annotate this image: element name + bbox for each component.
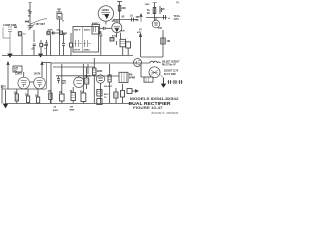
resistor R2 (40, 40, 43, 47)
svg-text:1ST IF: 1ST IF (74, 49, 81, 51)
svg-text:50L6GT: 50L6GT (104, 86, 113, 88)
capacitor C18 (57, 79, 60, 81)
wire V6 stem (78, 76, 80, 77)
svg-text:KC: KC (136, 20, 140, 22)
svg-text:10: 10 (104, 97, 107, 99)
T2 divider (81, 27, 83, 53)
capacitor C3 (33, 44, 36, 46)
wire (33, 30, 35, 42)
fuse box (127, 89, 132, 94)
tuning capacitor arrow (29, 24, 35, 31)
svg-text:12V: 12V (14, 68, 19, 70)
svg-text:.05: .05 (121, 16, 125, 19)
svg-text:.05: .05 (53, 107, 57, 109)
svg-text:10M: 10M (43, 44, 48, 47)
grid row wire (56, 75, 94, 77)
svg-text:25: 25 (28, 16, 31, 18)
arrow on heater wire (41, 62, 43, 65)
svg-text:455KC: 455KC (84, 29, 91, 32)
resistor R18 (97, 90, 102, 97)
svg-text:2.2: 2.2 (23, 34, 27, 36)
tube V6 envelope (74, 77, 84, 87)
svg-text:120V: 120V (145, 4, 151, 6)
svg-text:1ST DET: 1ST DET (36, 24, 46, 26)
second rail (53, 66, 94, 68)
svg-text:220K: 220K (97, 71, 103, 73)
wire (40, 47, 42, 55)
heater wire (41, 63, 43, 78)
right box bottom wire (141, 56, 163, 58)
oscillator coil T1 (57, 14, 62, 20)
wire (94, 75, 119, 104)
wire (37, 89, 39, 104)
V6 marks (76, 81, 82, 84)
filter choke L2 (150, 61, 161, 63)
antenna top cap (28, 2, 32, 4)
heater chain wire (2, 88, 46, 90)
B+ rail horizontal (51, 62, 150, 64)
svg-text:SPKR: SPKR (129, 77, 136, 79)
svg-text:12AT6: 12AT6 (15, 73, 22, 76)
svg-text:47K: 47K (121, 30, 125, 33)
resistor R5 (153, 8, 156, 14)
svg-text:AVC: AVC (104, 93, 109, 96)
capacitor C17 box (126, 42, 131, 48)
label boxed note (13, 66, 22, 72)
capacitor C9 (37, 97, 40, 103)
wire V3 top (23, 72, 25, 77)
wire (117, 33, 121, 45)
resistor R15 (120, 39, 126, 47)
AVC top cap (153, 2, 158, 4)
antenna lead-in wire (29, 3, 31, 30)
wire to oscillator (30, 19, 47, 25)
svg-text:400V: 400V (53, 109, 59, 112)
output transformer T3 (119, 72, 128, 82)
wire (46, 40, 48, 56)
AVC stub arrow (140, 14, 142, 17)
wire (100, 31, 102, 56)
switch box (144, 77, 153, 82)
wire (119, 20, 121, 23)
rectifier V5 envelope (152, 20, 160, 28)
svg-text:PM: PM (129, 75, 133, 77)
capacitor C2 (14, 26, 17, 28)
B+ top cap (117, 1, 122, 3)
capacitor C10 (60, 94, 65, 101)
svg-text:150: 150 (70, 107, 74, 109)
wire (58, 76, 60, 84)
T2 winding left (75, 40, 82, 47)
tuning capacitor C1B (28, 25, 33, 27)
wire (63, 33, 65, 56)
chassis bus (bottom section) (6, 103, 132, 105)
resistor R8 (49, 93, 52, 100)
wire (87, 64, 89, 74)
wire plate (113, 19, 138, 21)
tube V8 envelope (134, 59, 142, 67)
svg-text:b: b (62, 19, 64, 23)
ground (bottom) (4, 104, 8, 108)
svg-text:12BA6: 12BA6 (112, 20, 120, 23)
svg-text:2ND IF: 2ND IF (74, 30, 81, 32)
right box left wire (140, 34, 142, 57)
ground (loop return) (8, 54, 12, 57)
resistor R1 (18, 32, 21, 36)
left edge wire (1, 85, 3, 104)
svg-text:455KC: 455KC (92, 22, 99, 25)
capacitor C4 (53, 32, 54, 35)
capacitor C12 (99, 34, 102, 36)
output stage feed wire (93, 58, 95, 68)
svg-text:.01: .01 (130, 15, 134, 18)
svg-text:+⊦: +⊦ (168, 16, 171, 20)
tube V3 envelope (18, 77, 30, 89)
V7 marks (98, 78, 103, 81)
svg-text:F+: F+ (177, 2, 181, 5)
T2 winding right (84, 40, 91, 47)
tube V1 envelope (98, 6, 113, 21)
B+ rail vertical (50, 63, 52, 104)
right box right wire (162, 30, 164, 57)
wire (109, 64, 111, 104)
capacitor C1 (29, 12, 32, 14)
svg-text:50L6GT 35Z5GT: 50L6GT 35Z5GT (162, 62, 180, 64)
V9 internal marks (151, 70, 158, 75)
capacitor C14 (62, 44, 65, 46)
resistor R10 (93, 68, 96, 75)
wire V1 bottom (105, 21, 107, 24)
capacitor C11 (81, 93, 86, 102)
left section edge wire (46, 63, 48, 89)
wire (16, 89, 18, 104)
V8 marks (135, 61, 140, 65)
resistor R4 (118, 6, 121, 12)
wire (72, 87, 74, 104)
V3 heater marks (21, 81, 27, 90)
svg-text:117V: 117V (174, 19, 180, 21)
chassis bus (top section) (2, 55, 133, 57)
bottom ground lead (5, 90, 7, 104)
svg-text:47: 47 (64, 33, 67, 36)
AVC stub wire (140, 15, 142, 23)
capacitor C19 (97, 99, 102, 105)
svg-text:MMF: MMF (70, 110, 76, 112)
svg-text:C1A: C1A (25, 21, 30, 24)
wire (123, 47, 129, 56)
wire (119, 2, 121, 21)
wire (70, 33, 72, 56)
ground (speaker) (162, 78, 166, 87)
IF can small box (92, 25, 100, 35)
resistor R14 (70, 43, 73, 47)
capacitor C7 (164, 15, 166, 20)
svg-text:455: 455 (136, 16, 141, 19)
oscillator coil cap (56, 9, 62, 12)
wire (115, 88, 117, 104)
wire (27, 89, 29, 104)
IF can windings (94, 27, 96, 33)
resistor R16 (84, 78, 89, 84)
wire grid row (46, 32, 67, 34)
resistor R3 (47, 31, 50, 34)
B+ feed wire (7, 63, 9, 90)
svg-text:90: 90 (147, 12, 150, 15)
wire (86, 67, 88, 89)
wire (42, 62, 51, 64)
wire (59, 19, 61, 55)
resistor R6 (161, 38, 165, 44)
tube V2 envelope (112, 23, 122, 33)
svg-text:JOHN F. RIDER: JOHN F. RIDER (151, 111, 179, 115)
svg-text:TO B+: TO B+ (174, 16, 181, 18)
svg-text:455KC: 455KC (84, 48, 91, 51)
svg-text:40: 40 (162, 8, 165, 11)
wire (49, 100, 51, 104)
AVC line wire (154, 3, 156, 22)
resistor R19 (114, 92, 118, 98)
wire (122, 84, 124, 104)
svg-text:117V: 117V (1, 87, 7, 89)
wire to ground (160, 75, 164, 79)
svg-text:47: 47 (139, 29, 142, 32)
capacitor C8 (27, 96, 30, 103)
V2 grid marks (114, 26, 121, 28)
V5 plate marks (154, 23, 158, 25)
svg-text:DET: DET (62, 83, 67, 85)
wire (61, 64, 63, 104)
capacitor C5 (132, 18, 134, 22)
resistor R13 (60, 31, 63, 34)
AC line ticks (169, 80, 182, 84)
resistor R7 (15, 94, 18, 101)
svg-text:1M: 1M (167, 40, 170, 43)
capacitor C16 (104, 27, 106, 30)
wire (33, 46, 35, 55)
svg-text:22K: 22K (122, 7, 127, 10)
svg-text:12BE6: 12BE6 (102, 9, 110, 12)
tube V7 envelope (96, 75, 104, 83)
arrow B+ (140, 34, 142, 37)
wire (21, 36, 23, 55)
resistor R12 (108, 75, 111, 82)
IF transformer box T2 (73, 27, 99, 53)
svg-text:470K: 470K (48, 28, 54, 31)
wire (82, 64, 84, 104)
wire V5 stem (155, 18, 157, 21)
capacitor C20 (121, 91, 125, 98)
AC line wire (167, 81, 183, 83)
svg-text:DUAL RECTIFIER: DUAL RECTIFIER (129, 101, 172, 106)
arrow on B+ feed (7, 62, 9, 65)
wire (50, 35, 52, 56)
svg-text:AC: AC (14, 70, 18, 73)
V4 heater marks (37, 81, 43, 90)
rectifier V9 envelope (149, 67, 160, 78)
V1 grid marks (101, 13, 110, 15)
svg-text:1K: 1K (70, 91, 73, 93)
svg-text:60 CY 30W: 60 CY 30W (164, 74, 177, 76)
wire (146, 17, 167, 19)
wire (141, 63, 144, 77)
wire grid V2 (100, 27, 112, 29)
svg-text:50L6: 50L6 (85, 76, 91, 78)
resistor R9 (71, 93, 75, 101)
tube V4 envelope (34, 77, 46, 89)
svg-text:12AT6: 12AT6 (34, 73, 41, 76)
ground junction blob (39, 54, 43, 57)
V2 cathode blob (116, 29, 119, 32)
svg-text:M: M (58, 15, 61, 19)
loop antenna L1 (8, 27, 12, 54)
loop left side (3, 28, 10, 39)
resistor R11 (110, 38, 114, 42)
wire between tubes (30, 81, 34, 83)
svg-text:FIGURE 10-47: FIGURE 10-47 (133, 106, 163, 110)
V1 cathode blob (105, 15, 109, 18)
capacitor C15 (45, 43, 48, 45)
svg-text:35Z5GT 117V: 35Z5GT 117V (164, 71, 179, 73)
svg-text:PILOT No 47: PILOT No 47 (162, 64, 176, 67)
svg-text:150: 150 (158, 27, 163, 30)
arrow to right (132, 90, 138, 92)
filter cap C6 (160, 6, 162, 14)
